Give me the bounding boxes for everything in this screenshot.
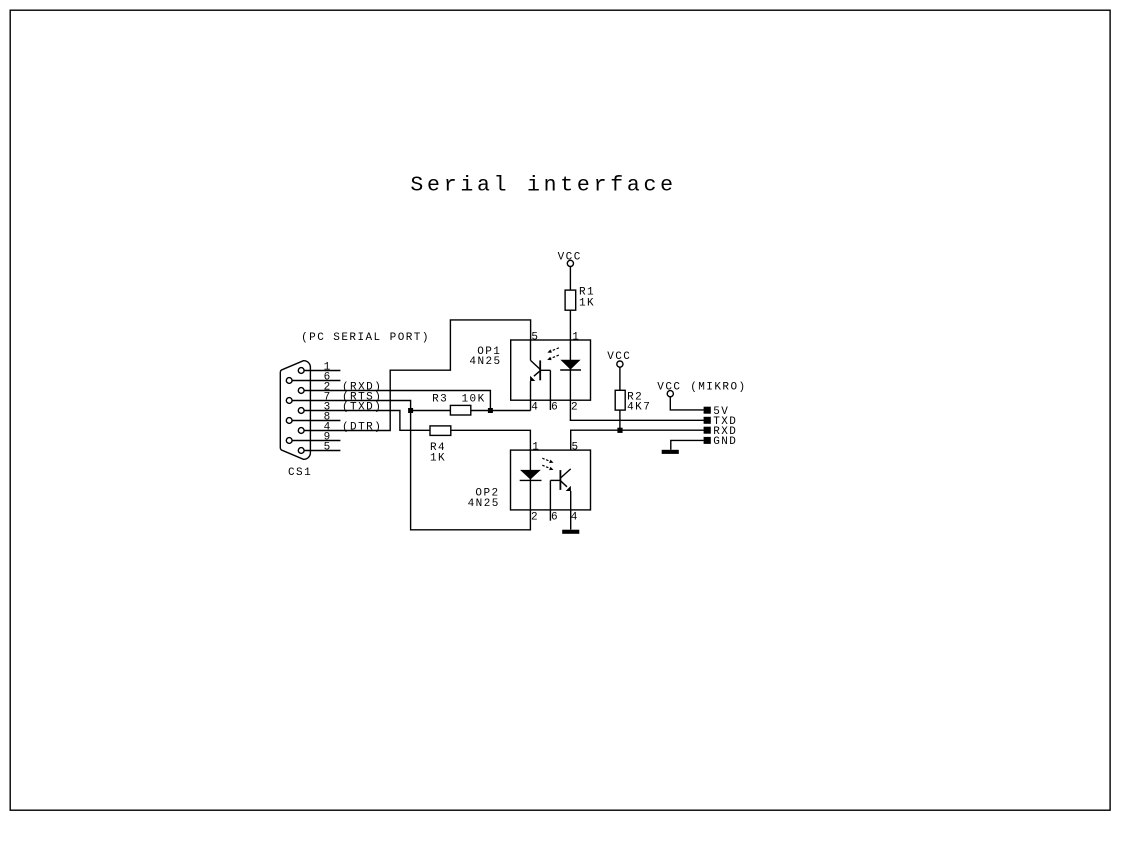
optocoupler OP2 bbox=[468, 441, 591, 529]
resistor R3 bbox=[432, 393, 486, 415]
svg-text:VCC: VCC bbox=[558, 251, 582, 263]
CS1 pin circle 1 bbox=[298, 368, 304, 374]
CS1 pin 9 bbox=[292, 431, 340, 443]
VCC symbol (MIKRO) bbox=[657, 382, 746, 397]
pad RXD bbox=[704, 426, 738, 438]
ground (OP2 emitter) bbox=[562, 530, 579, 534]
CS1 pin circle 4 bbox=[298, 428, 304, 434]
title text bbox=[410, 174, 676, 198]
label CS1 bbox=[288, 467, 312, 479]
pad 5V bbox=[704, 406, 730, 418]
CS1 pin circle 3 bbox=[298, 408, 304, 414]
wire TXD(PC) net (pin3 through R4 to OP2 pin1) bbox=[304, 411, 530, 451]
OP1 phototransistor bbox=[530, 340, 532, 360]
CS1 pin circle 9 bbox=[286, 438, 292, 444]
label (PC SERIAL PORT) bbox=[301, 332, 430, 344]
wire OP2 pin5 to RXD pad bbox=[571, 430, 704, 469]
pad GND bbox=[704, 436, 738, 448]
svg-text:Serial interface: Serial interface bbox=[410, 174, 676, 198]
svg-text:(PC SERIAL PORT): (PC SERIAL PORT) bbox=[301, 332, 430, 344]
CS1 pin 1 bbox=[304, 361, 340, 373]
svg-text:(DTR): (DTR) bbox=[342, 421, 382, 433]
wire R3 row (junction to OP1 pin4) bbox=[411, 410, 531, 412]
ground (MIKRO) bbox=[662, 450, 679, 454]
wire RTS junction to OP2 pin2 bbox=[411, 411, 531, 530]
CS1 pin circle 5 bbox=[298, 448, 304, 454]
wire RTS net (pin7 to junction) bbox=[292, 401, 411, 411]
wire RXD(PC) net (pin2 down to R3 right junction) bbox=[304, 391, 490, 411]
svg-text:4K7: 4K7 bbox=[627, 401, 651, 413]
svg-text:CS1: CS1 bbox=[288, 467, 312, 479]
CS1 pin circle 7 bbox=[286, 398, 292, 404]
svg-text:1: 1 bbox=[572, 332, 580, 344]
wire DTR net (pin4 to OP1 pin5) bbox=[304, 320, 530, 431]
CS1 pin 2 bbox=[324, 381, 383, 393]
OP1 light arrows bbox=[549, 348, 559, 352]
CS1 pin circle 8 bbox=[286, 418, 292, 424]
pad TXD bbox=[704, 416, 738, 428]
OP2 light arrows bbox=[542, 458, 552, 462]
OP2 phototransistor bbox=[559, 470, 561, 490]
junction RTS/R3 bbox=[408, 408, 413, 413]
svg-text:4: 4 bbox=[571, 511, 579, 523]
VCC symbol (R1) bbox=[558, 251, 582, 266]
resistor R1 bbox=[565, 287, 595, 311]
VCC symbol (R2) bbox=[607, 351, 631, 367]
svg-text:5: 5 bbox=[324, 441, 332, 453]
CS1 pin 7 bbox=[324, 391, 383, 403]
svg-text:GND: GND bbox=[713, 436, 737, 448]
svg-text:2: 2 bbox=[571, 401, 579, 413]
wire VCC through R2 down to RXD line bbox=[619, 367, 621, 430]
OP1 LED bbox=[569, 340, 571, 400]
CS1 pin circle 2 bbox=[298, 388, 304, 394]
svg-text:6: 6 bbox=[551, 511, 559, 523]
CS1 pin 8 bbox=[292, 411, 340, 423]
svg-text:5: 5 bbox=[572, 441, 580, 453]
svg-text:10K: 10K bbox=[462, 393, 486, 405]
svg-text:5: 5 bbox=[531, 332, 539, 344]
svg-text:6: 6 bbox=[551, 401, 559, 413]
svg-text:4N25: 4N25 bbox=[469, 356, 501, 368]
CS1 pin 6 bbox=[292, 371, 340, 383]
wire VCC to R1 to OP1 pin1 bbox=[569, 267, 571, 340]
svg-text:(MIKRO): (MIKRO) bbox=[690, 382, 746, 394]
CS1 pin circle 6 bbox=[286, 378, 292, 384]
svg-text:4: 4 bbox=[531, 401, 539, 413]
optocoupler OP1 bbox=[469, 332, 590, 414]
CS1 pin 4 bbox=[324, 421, 383, 433]
wire OP1 pin2 to TXD pad bbox=[570, 400, 703, 420]
OP2 LED bbox=[529, 450, 531, 510]
resistor R2 bbox=[615, 390, 651, 413]
junction R2/RXD bbox=[617, 428, 622, 433]
svg-text:R3: R3 bbox=[432, 393, 448, 405]
svg-text:VCC: VCC bbox=[657, 382, 681, 394]
resistor R4 bbox=[430, 426, 451, 465]
wire GND pad to ground bbox=[671, 440, 704, 449]
CS1 pin 5 bbox=[304, 441, 340, 453]
svg-text:2: 2 bbox=[531, 511, 539, 523]
svg-text:(TXD): (TXD) bbox=[342, 401, 382, 413]
svg-text:4N25: 4N25 bbox=[468, 498, 500, 510]
wire VCC(MIKRO) to 5V pad bbox=[670, 397, 704, 410]
CS1 pin 3 bbox=[324, 401, 383, 413]
svg-text:1K: 1K bbox=[579, 298, 595, 310]
junction RXD/R3/OP1 pin4 bbox=[488, 408, 493, 413]
svg-text:1K: 1K bbox=[430, 453, 446, 465]
svg-text:1: 1 bbox=[532, 441, 540, 453]
connector CS1 (DB9 body) bbox=[280, 361, 310, 460]
